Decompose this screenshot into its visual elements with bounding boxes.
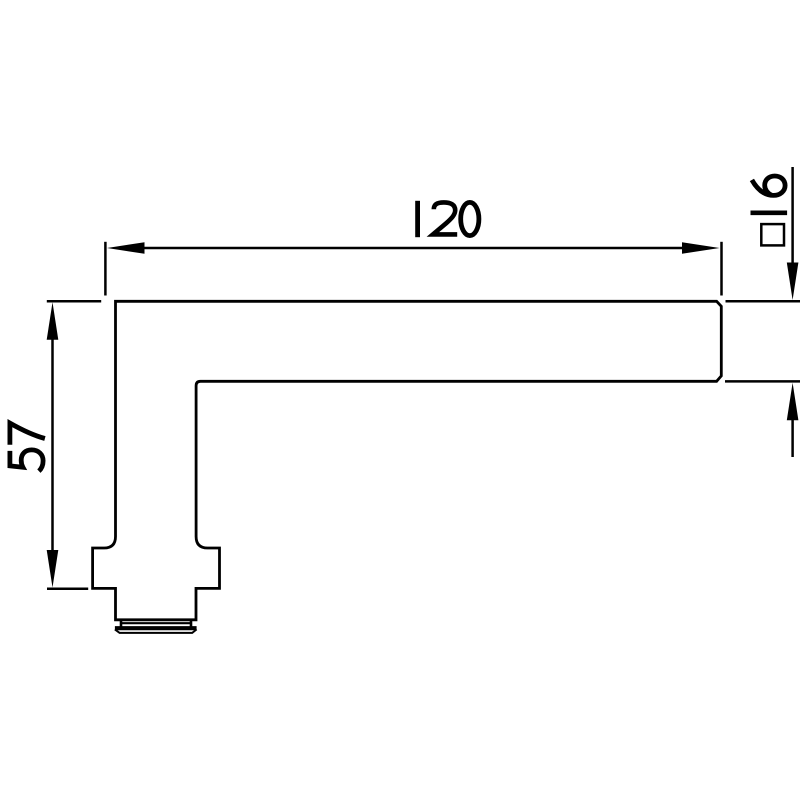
dimension 16 bottom extension line [725, 380, 800, 383]
dimension 16 lower leader line [791, 418, 794, 457]
dimension text 120 [418, 201, 479, 237]
dimension 57 top extension line [47, 300, 101, 303]
dimension text square16 rotated [751, 176, 788, 245]
dimension 57 bottom arrowhead [47, 550, 59, 588]
washer chamfer outline [115, 629, 197, 633]
dimension 120 left extension line [104, 242, 107, 296]
dimension 16 down arrowhead [787, 263, 799, 301]
handle body outline [93, 301, 722, 620]
dimension 120 left arrowhead [107, 242, 145, 254]
dimension 57 line [51, 330, 54, 560]
spindle step left edge [120, 620, 123, 628]
square section symbol [761, 224, 784, 245]
spindle step groove line [121, 622, 191, 624]
dimension 120 right extension line [720, 242, 723, 296]
dimension text 57 rotated [10, 423, 45, 471]
dimension 16 top extension line [726, 300, 800, 303]
dimension 57 top arrowhead [47, 302, 59, 340]
dimension 16 upper leader line [791, 167, 794, 265]
dimension 57 bottom extension line [47, 587, 88, 590]
spindle step right edge [190, 620, 193, 628]
washer top thick line [115, 626, 197, 630]
dimension 120 right arrowhead [682, 242, 720, 254]
dimension 120 line [130, 247, 700, 250]
dimension 16 up arrowhead [787, 383, 799, 421]
